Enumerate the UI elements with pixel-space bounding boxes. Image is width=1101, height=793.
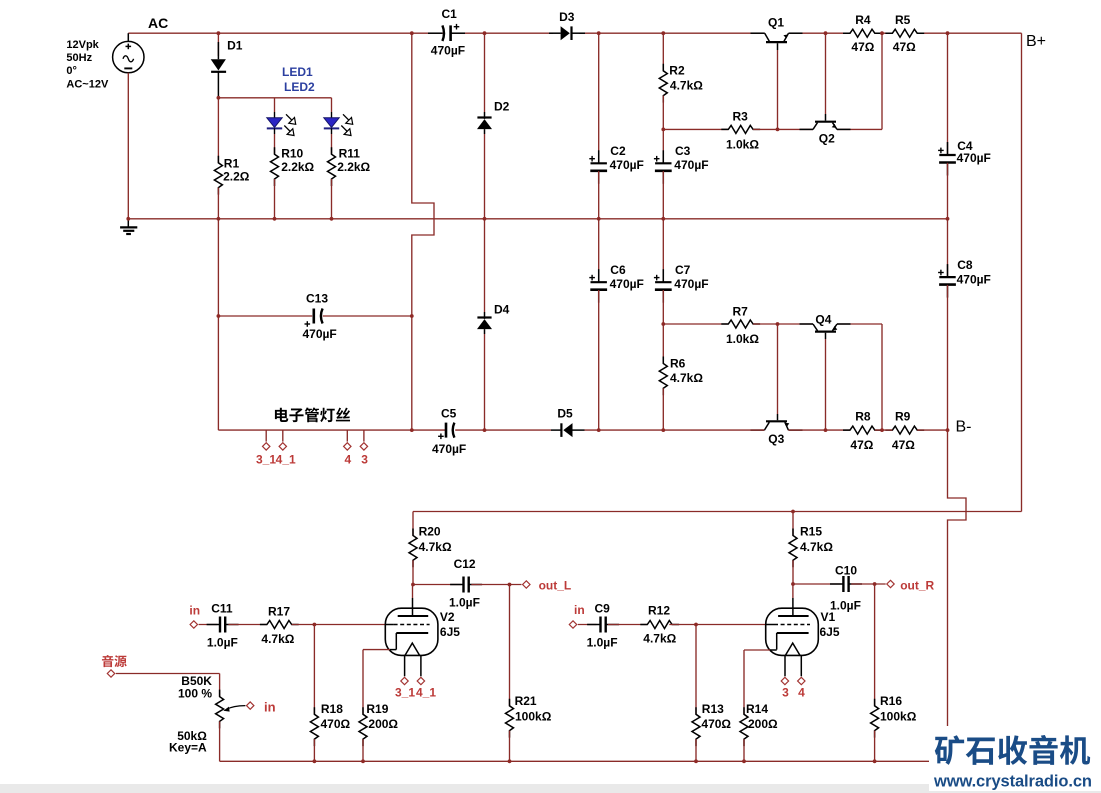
svg-text:C1: C1 <box>442 7 458 21</box>
svg-text:470Ω: 470Ω <box>321 717 351 731</box>
svg-text:100kΩ: 100kΩ <box>880 709 917 723</box>
svg-text:in: in <box>574 603 585 617</box>
svg-text:4_1: 4_1 <box>276 453 296 467</box>
svg-text:R7: R7 <box>733 305 749 319</box>
svg-text:AC: AC <box>148 15 168 31</box>
svg-text:out_R: out_R <box>900 578 934 592</box>
svg-text:470Ω: 470Ω <box>701 717 731 731</box>
svg-text:4.7kΩ: 4.7kΩ <box>670 79 703 93</box>
svg-text:in: in <box>189 604 200 618</box>
svg-text:200Ω: 200Ω <box>368 717 398 731</box>
svg-text:50Hz: 50Hz <box>66 52 92 64</box>
svg-text:R3: R3 <box>733 110 749 124</box>
svg-text:470µF: 470µF <box>431 44 465 58</box>
svg-text:R13: R13 <box>702 702 724 716</box>
svg-text:4.7kΩ: 4.7kΩ <box>643 632 676 646</box>
svg-text:R5: R5 <box>895 13 911 27</box>
svg-text:Key=A: Key=A <box>169 741 207 755</box>
svg-text:R16: R16 <box>880 694 902 708</box>
svg-text:47Ω: 47Ω <box>850 438 873 452</box>
svg-text:470µF: 470µF <box>674 277 708 291</box>
svg-text:R15: R15 <box>800 525 822 539</box>
svg-text:www.crystalradio.cn: www.crystalradio.cn <box>933 773 1092 791</box>
svg-text:D1: D1 <box>227 39 243 53</box>
svg-text:C7: C7 <box>675 263 691 277</box>
svg-text:C10: C10 <box>835 564 857 578</box>
svg-text:12Vpk: 12Vpk <box>66 39 99 51</box>
svg-text:V2: V2 <box>440 610 455 624</box>
svg-text:R4: R4 <box>855 13 871 27</box>
svg-text:C6: C6 <box>610 263 626 277</box>
svg-text:C13: C13 <box>306 291 328 305</box>
svg-text:out_L: out_L <box>539 579 572 593</box>
svg-text:R6: R6 <box>670 356 686 370</box>
svg-text:470µF: 470µF <box>303 327 337 341</box>
svg-text:D4: D4 <box>494 303 510 317</box>
svg-text:Q4: Q4 <box>815 312 831 326</box>
svg-text:100kΩ: 100kΩ <box>515 709 552 723</box>
svg-text:470µF: 470µF <box>610 158 644 172</box>
svg-text:D5: D5 <box>557 406 573 420</box>
svg-text:C12: C12 <box>454 557 476 571</box>
svg-text:1.0kΩ: 1.0kΩ <box>726 332 759 346</box>
svg-text:R12: R12 <box>648 603 670 617</box>
svg-text:in: in <box>264 700 276 715</box>
svg-text:47Ω: 47Ω <box>892 438 915 452</box>
svg-text:C11: C11 <box>211 601 233 615</box>
svg-text:3: 3 <box>782 686 789 700</box>
svg-text:2.2kΩ: 2.2kΩ <box>337 160 370 174</box>
svg-text:470µF: 470µF <box>610 277 644 291</box>
svg-text:2.2kΩ: 2.2kΩ <box>281 160 314 174</box>
svg-text:D3: D3 <box>559 10 575 24</box>
svg-text:3_1: 3_1 <box>395 686 415 700</box>
svg-text:C8: C8 <box>957 258 973 272</box>
svg-text:3: 3 <box>361 453 368 467</box>
svg-text:V1: V1 <box>821 610 836 624</box>
svg-text:LED2: LED2 <box>284 80 315 94</box>
svg-text:4.7kΩ: 4.7kΩ <box>800 540 833 554</box>
svg-text:47Ω: 47Ω <box>893 40 916 54</box>
svg-text:6J5: 6J5 <box>820 625 840 639</box>
svg-text:47Ω: 47Ω <box>851 40 874 54</box>
svg-text:R10: R10 <box>281 146 303 160</box>
svg-text:B+: B+ <box>1026 33 1046 50</box>
svg-text:6J5: 6J5 <box>440 625 460 639</box>
svg-text:1.0kΩ: 1.0kΩ <box>726 137 759 151</box>
svg-text:Q2: Q2 <box>819 132 835 146</box>
svg-text:4.7kΩ: 4.7kΩ <box>670 371 703 385</box>
svg-text:200Ω: 200Ω <box>748 717 778 731</box>
svg-text:R18: R18 <box>321 702 343 716</box>
svg-text:2.2Ω: 2.2Ω <box>223 170 250 184</box>
svg-text:Q3: Q3 <box>768 432 784 446</box>
svg-text:R1: R1 <box>224 157 240 171</box>
svg-text:C9: C9 <box>595 602 611 616</box>
svg-text:AC~12V: AC~12V <box>66 78 109 90</box>
svg-text:1.0µF: 1.0µF <box>449 596 480 610</box>
svg-text:100 %: 100 % <box>178 686 212 700</box>
svg-text:C3: C3 <box>675 144 691 158</box>
svg-text:R2: R2 <box>669 64 685 78</box>
svg-text:4: 4 <box>798 686 805 700</box>
svg-text:470µF: 470µF <box>432 442 466 456</box>
svg-text:0°: 0° <box>66 65 77 77</box>
svg-text:1.0µF: 1.0µF <box>587 635 618 649</box>
svg-text:D2: D2 <box>494 100 510 114</box>
svg-text:LED1: LED1 <box>282 65 313 79</box>
svg-text:R17: R17 <box>268 604 290 618</box>
svg-text:C5: C5 <box>441 406 457 420</box>
svg-text:R20: R20 <box>419 525 441 539</box>
svg-text:R19: R19 <box>366 702 388 716</box>
svg-text:4.7kΩ: 4.7kΩ <box>419 540 452 554</box>
svg-text:4.7kΩ: 4.7kΩ <box>261 632 294 646</box>
svg-text:470µF: 470µF <box>957 273 991 287</box>
svg-text:470µF: 470µF <box>957 151 991 165</box>
svg-text:3_1: 3_1 <box>256 453 276 467</box>
svg-text:B-: B- <box>956 419 972 436</box>
svg-text:1.0µF: 1.0µF <box>207 635 238 649</box>
svg-text:4_1: 4_1 <box>416 686 436 700</box>
svg-text:R9: R9 <box>895 410 911 424</box>
svg-text:4: 4 <box>345 453 352 467</box>
svg-text:R8: R8 <box>855 410 871 424</box>
svg-text:R14: R14 <box>746 702 768 716</box>
svg-text:Q1: Q1 <box>768 16 784 30</box>
svg-text:R11: R11 <box>339 146 361 160</box>
svg-text:C2: C2 <box>610 144 626 158</box>
svg-text:470µF: 470µF <box>674 158 708 172</box>
svg-text:R21: R21 <box>515 694 537 708</box>
